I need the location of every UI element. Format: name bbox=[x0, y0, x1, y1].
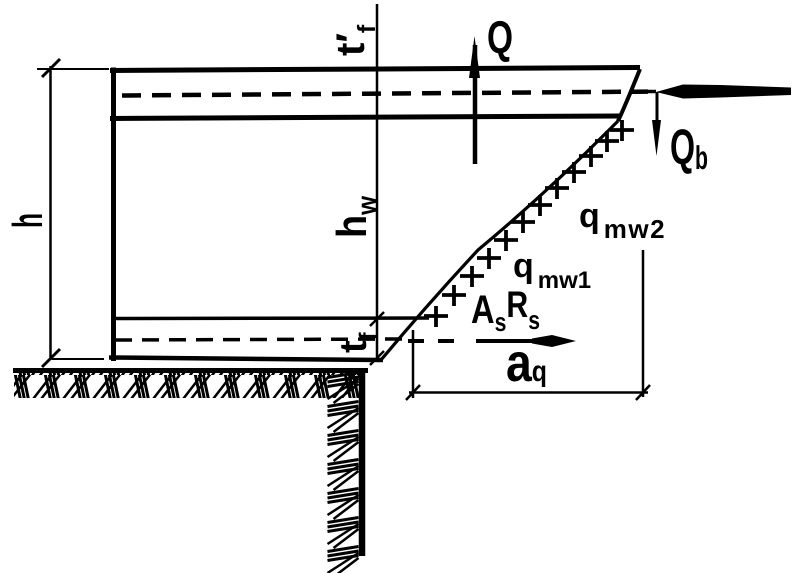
top flange top line bbox=[110, 68, 640, 71]
dimension aq bbox=[406, 250, 650, 400]
bottom flange top line bbox=[112, 316, 429, 320]
top flange axis dashed line bbox=[122, 92, 648, 96]
ground surface line bbox=[13, 368, 368, 373]
force Qb arrow bbox=[652, 92, 661, 156]
bottom flange axis dashed line bbox=[115, 339, 402, 340]
dimension line h bbox=[37, 59, 109, 367]
wall face line bbox=[359, 370, 366, 556]
stirrup crosses along crack bbox=[424, 120, 634, 327]
beam end corner curve bbox=[618, 69, 640, 121]
inclined crack line bbox=[381, 121, 618, 360]
horizontal force arrow bbox=[642, 85, 791, 99]
AsRs force arrow bbox=[408, 335, 576, 347]
ground hatching bbox=[14, 373, 361, 398]
beam left edge bbox=[111, 68, 116, 362]
wall hatching bbox=[328, 373, 359, 573]
bottom flange bottom line bbox=[109, 358, 383, 361]
svg-text:Q: Q bbox=[487, 11, 513, 63]
top flange bottom line bbox=[110, 116, 620, 119]
force Q arrow bbox=[469, 36, 480, 164]
svg-text:h: h bbox=[4, 213, 51, 228]
vertical reference line bbox=[370, 4, 384, 365]
